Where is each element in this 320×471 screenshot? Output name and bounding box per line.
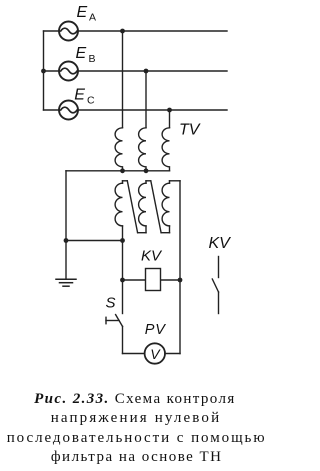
contact KV xyxy=(212,257,218,314)
wire drop C xyxy=(169,110,171,128)
transformer TV secondary winding 3 xyxy=(162,181,180,233)
svg-text:V: V xyxy=(150,346,161,362)
node left bus junction xyxy=(41,69,46,74)
svg-text:E: E xyxy=(74,87,85,104)
wire EA left stub xyxy=(44,30,60,32)
wire right vertical xyxy=(179,181,181,354)
label KV coil xyxy=(141,248,163,265)
wire primary star line xyxy=(66,170,170,172)
wire left vertical lower xyxy=(122,326,124,353)
node phase A tap xyxy=(120,29,125,34)
wire secondary link 1-2 diagonal xyxy=(127,181,146,233)
wire phase B xyxy=(78,70,227,72)
switch S xyxy=(106,315,123,327)
wire EB left stub xyxy=(44,70,60,72)
svg-text:C: C xyxy=(87,94,95,106)
label EC xyxy=(74,87,95,107)
label EB xyxy=(76,45,96,65)
node delta output left xyxy=(120,238,125,243)
node phase B tap xyxy=(144,69,149,74)
wire phase C xyxy=(78,109,227,111)
wire bottom left xyxy=(123,353,145,355)
wire drop A xyxy=(122,31,124,128)
svg-text:E: E xyxy=(77,4,88,21)
node star A xyxy=(120,168,125,173)
relay coil KV xyxy=(146,269,161,291)
wire EC left stub xyxy=(44,109,60,111)
wire left vertical upper xyxy=(122,241,124,314)
svg-text:KV: KV xyxy=(141,248,163,265)
transformer TV primary winding A xyxy=(115,128,122,171)
svg-text:E: E xyxy=(76,45,87,62)
label KV contact xyxy=(209,235,232,252)
transformer TV secondary winding 1 xyxy=(115,181,127,241)
node star B xyxy=(144,168,149,173)
svg-text:S: S xyxy=(106,294,116,311)
wire ground branch vertical xyxy=(65,171,67,279)
node phase C tap xyxy=(167,108,172,113)
svg-text:B: B xyxy=(89,53,96,65)
wire KV coil branch xyxy=(123,279,181,281)
svg-text:TV: TV xyxy=(179,122,201,139)
caption line 1 xyxy=(1,391,269,408)
caption line 2 xyxy=(2,410,270,427)
source EB xyxy=(59,62,78,81)
node left KV tee xyxy=(120,278,125,283)
ground xyxy=(56,279,76,286)
label TV xyxy=(179,122,201,139)
wire secondary link 2-3 diagonal xyxy=(151,181,170,233)
node ground tee xyxy=(64,238,69,243)
label EA xyxy=(77,4,97,24)
source EA xyxy=(59,22,78,41)
node right KV tee xyxy=(178,278,183,283)
wire left bus vertical xyxy=(43,31,45,110)
transformer TV primary winding B xyxy=(139,128,146,171)
transformer TV primary winding C xyxy=(162,128,169,171)
svg-text:KV: KV xyxy=(209,235,232,252)
source EC xyxy=(59,101,78,120)
caption line 4 xyxy=(3,449,271,466)
wire bottom right xyxy=(165,353,180,355)
voltmeter PV xyxy=(145,343,165,363)
svg-text:PV: PV xyxy=(145,322,166,338)
svg-text:A: A xyxy=(89,11,96,23)
transformer TV secondary winding 2 xyxy=(139,181,151,233)
label PV xyxy=(145,322,166,338)
wire delta start line xyxy=(66,240,123,242)
wire drop B xyxy=(145,71,147,128)
caption line 3 xyxy=(3,430,271,447)
label S xyxy=(106,294,116,311)
wire phase A xyxy=(78,30,227,32)
